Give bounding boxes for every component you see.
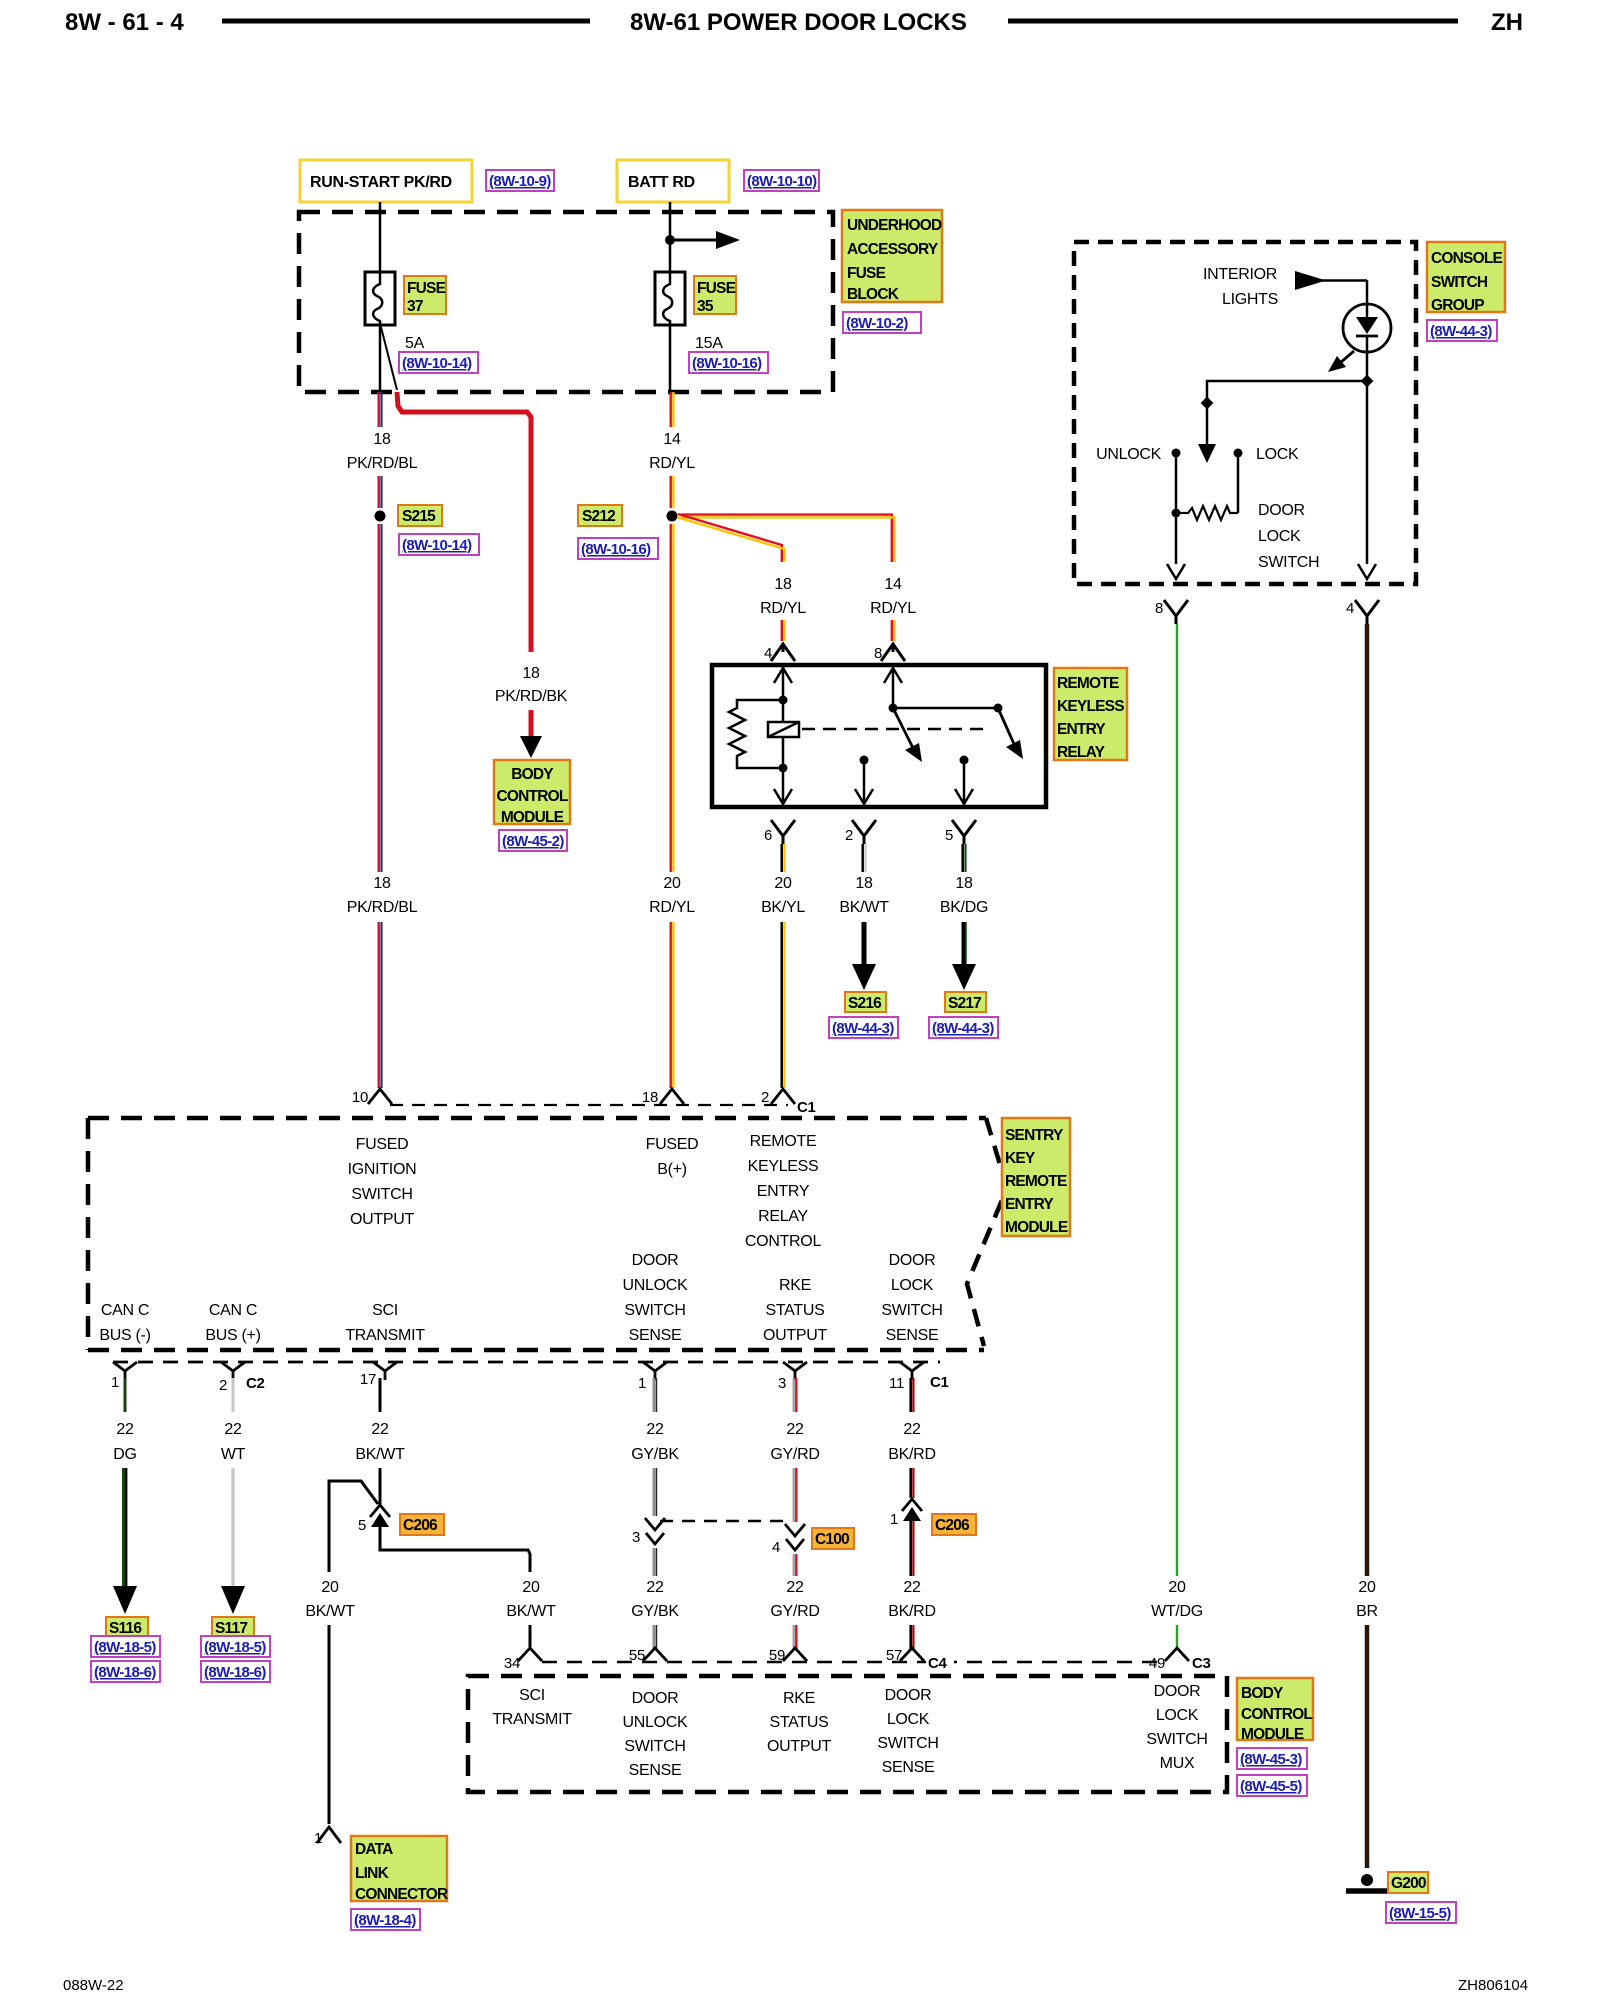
label CAN C BUS (-) [99, 1302, 150, 1344]
svg-text:(8W-45-5): (8W-45-5) [1240, 1778, 1302, 1795]
lamp with diode symbol [1343, 304, 1391, 352]
svg-text:DOOR: DOOR [632, 1252, 679, 1269]
svg-text:KEYLESS: KEYLESS [1057, 698, 1124, 715]
SKREEM module dashed box [88, 1118, 1007, 1350]
svg-text:ENTRY: ENTRY [1057, 721, 1106, 738]
svg-text:LOCK: LOCK [891, 1277, 934, 1294]
wire PK/RD/BL segment to splice [379, 476, 382, 508]
svg-text:LOCK: LOCK [887, 1711, 930, 1728]
wire arrow to splice S217 [952, 922, 976, 990]
svg-text:37: 37 [407, 298, 423, 315]
svg-text:CONTROL: CONTROL [745, 1233, 822, 1250]
svg-text:C1: C1 [930, 1374, 949, 1391]
svg-text:22: 22 [371, 1421, 389, 1438]
connector dashed link C100 [660, 1520, 790, 1523]
svg-text:C1: C1 [797, 1099, 816, 1116]
relay contact wire pin 2 internal [855, 756, 873, 805]
svg-text:1: 1 [890, 1511, 898, 1528]
label link 8W-44-3 at S217 [929, 1017, 998, 1038]
svg-text:ENTRY: ENTRY [1005, 1196, 1054, 1213]
svg-text:SENSE: SENSE [629, 1327, 682, 1344]
svg-text:18: 18 [373, 431, 391, 448]
label wire 14 RD/YL at relay pin 8 [870, 576, 916, 617]
svg-text:FUSE: FUSE [847, 265, 886, 282]
svg-text:(8W-10-2): (8W-10-2) [846, 315, 908, 332]
svg-text:GROUP: GROUP [1431, 297, 1484, 314]
pin 49 connector Y at BCM [1149, 1648, 1189, 1672]
label wire 20 BK/YL [761, 875, 805, 916]
label S215 [398, 505, 442, 526]
pin 2 connector Y below relay [845, 820, 876, 844]
svg-text:DOOR: DOOR [632, 1690, 679, 1707]
svg-text:UNDERHOOD: UNDERHOOD [847, 217, 942, 234]
svg-text:SWITCH: SWITCH [881, 1302, 942, 1319]
svg-text:RELAY: RELAY [1057, 744, 1106, 761]
svg-text:(8W-18-5): (8W-18-5) [204, 1639, 266, 1656]
svg-text:1: 1 [111, 1374, 119, 1391]
pin 2 connector Y below SKREEM (CAN C+) [219, 1362, 245, 1394]
wire lamp down to pin 4 [1366, 352, 1369, 564]
label G200 [1388, 1872, 1428, 1893]
pin 4 connector Y at relay [764, 644, 795, 662]
svg-text:2: 2 [845, 827, 853, 844]
svg-text:20: 20 [522, 1579, 540, 1596]
label S216 [845, 992, 886, 1012]
label wire 22 GY/BK [631, 1421, 679, 1463]
wire BK/WT segment to C206 [379, 1468, 382, 1505]
svg-text:DATA: DATA [355, 1841, 393, 1858]
relay coil symbol [768, 722, 799, 737]
pin 11 connector Y below SKREEM (lock sense) [889, 1362, 924, 1392]
label wire 20 BR [1356, 1579, 1378, 1620]
svg-text:SENSE: SENSE [886, 1327, 939, 1344]
svg-text:SWITCH: SWITCH [1146, 1731, 1207, 1748]
wire RD/YL segment below fuse block [671, 392, 674, 427]
relay common wire pin8 internal [884, 665, 998, 708]
svg-text:18: 18 [522, 665, 540, 682]
label wire 22 GY/BK at BCM [631, 1579, 679, 1620]
pin 1 connector Y at data link connector [314, 1827, 341, 1847]
svg-text:CAN C: CAN C [101, 1302, 149, 1319]
label link 8W-10-10 [744, 170, 819, 191]
svg-text:SENSE: SENSE [882, 1759, 935, 1776]
svg-text:S216: S216 [848, 995, 882, 1012]
in-line connector C206 pin 5 [358, 1505, 390, 1534]
wire BK/RD below C206 to BCM pin 57 [911, 1521, 914, 1576]
svg-text:LIGHTS: LIGHTS [1222, 291, 1278, 308]
svg-text:BK/WT: BK/WT [506, 1603, 556, 1620]
label S212 [578, 505, 622, 526]
svg-text:(8W-18-5): (8W-18-5) [94, 1639, 156, 1656]
svg-text:DOOR: DOOR [889, 1252, 936, 1269]
svg-text:2: 2 [219, 1377, 227, 1394]
relay contact wire pin 5 internal [955, 756, 973, 805]
svg-text:MODULE: MODULE [1241, 1726, 1304, 1743]
label wire 18 PK/RD/BK [495, 665, 568, 705]
PAGE_HEADER [65, 9, 1523, 36]
svg-text:22: 22 [646, 1421, 664, 1438]
wire to lamp [1366, 280, 1369, 306]
svg-text:CONNECTOR: CONNECTOR [355, 1886, 448, 1903]
pin 17 connector Y below SKREEM (SCI) [360, 1362, 397, 1388]
svg-text:RUN-START PK/RD: RUN-START PK/RD [310, 174, 452, 191]
svg-text:FUSE: FUSE [697, 280, 736, 297]
label wire 22 GY/RD at BCM [770, 1579, 819, 1620]
svg-text:(8W-10-10): (8W-10-10) [747, 173, 817, 190]
label wire 20 WT/DG [1151, 1579, 1203, 1620]
splice S215 junction dot [375, 511, 386, 522]
svg-text:GY/BK: GY/BK [631, 1603, 679, 1620]
label FUSED B(+) [646, 1136, 699, 1178]
svg-text:22: 22 [786, 1579, 804, 1596]
svg-text:SCI: SCI [372, 1302, 398, 1319]
junction resistor to unlock wire [1172, 509, 1181, 518]
wire BK/YL from relay pin 6 [782, 844, 785, 872]
label link 8W-10-16 [689, 352, 768, 373]
label S217 [945, 992, 986, 1012]
svg-text:REMOTE: REMOTE [750, 1133, 817, 1150]
svg-text:BLOCK: BLOCK [847, 286, 900, 303]
svg-text:LOCK: LOCK [1156, 1707, 1199, 1724]
junction diamond at lamp wire [1361, 375, 1374, 388]
wire BK/WT segment to DLC [328, 1625, 331, 1824]
wire BK/WT below C206 to BCM pin 34 [380, 1527, 530, 1572]
svg-text:SCI: SCI [519, 1687, 545, 1704]
wire GY/BK below C100 to BCM pin 55 [654, 1548, 657, 1576]
label FUSED IGNITION SWITCH OUTPUT [348, 1136, 417, 1228]
wire RD/YL main segment down from S212 [671, 524, 674, 872]
svg-text:SENTRY: SENTRY [1005, 1127, 1064, 1144]
wire from RUN-START feed to fuse 37 [379, 202, 382, 272]
lock contact [1234, 449, 1243, 458]
svg-text:22: 22 [786, 1421, 804, 1438]
svg-text:REMOTE: REMOTE [1005, 1173, 1067, 1190]
label DATA LINK CONNECTOR [351, 1836, 448, 1903]
wire lock contact down [1237, 453, 1240, 513]
label link 8W-10-14 at S215 [399, 534, 479, 555]
switch wiper arrow [1198, 404, 1216, 463]
label SCI TRANSMIT at BCM [492, 1687, 572, 1728]
BCM dashed box [468, 1676, 1227, 1792]
svg-text:18: 18 [855, 875, 873, 892]
label DOOR UNLOCK SWITCH SENSE at BCM [623, 1690, 689, 1779]
junction switch arm 2 [994, 704, 1003, 713]
svg-text:20: 20 [1358, 1579, 1376, 1596]
pin 1 connector Y below SKREEM (CAN C-) [111, 1362, 137, 1391]
svg-text:UNLOCK: UNLOCK [1096, 446, 1162, 463]
svg-text:20: 20 [663, 875, 681, 892]
svg-text:WT/DG: WT/DG [1151, 1603, 1203, 1620]
label SCI TRANSMIT [345, 1302, 425, 1344]
svg-text:FUSED: FUSED [646, 1136, 699, 1153]
label link 8W-18-5 at S116 [91, 1636, 160, 1657]
wire GY/RD segment to C100 [794, 1468, 797, 1522]
svg-text:6: 6 [764, 827, 772, 844]
svg-text:17: 17 [360, 1371, 376, 1388]
wire fuse 35 to block edge [669, 325, 672, 392]
svg-text:CONTROL: CONTROL [496, 788, 567, 805]
connector line C1 top of SKREEM [390, 1104, 788, 1106]
svg-text:8W - 61 - 4: 8W - 61 - 4 [65, 9, 184, 36]
svg-text:22: 22 [224, 1421, 242, 1438]
connector line C2/C1 bottom of SKREEM [113, 1361, 940, 1364]
svg-text:BODY: BODY [511, 766, 554, 783]
svg-text:DG: DG [113, 1446, 136, 1463]
unlock contact [1172, 449, 1181, 458]
svg-text:BR: BR [1356, 1603, 1378, 1620]
svg-text:(8W-10-14): (8W-10-14) [402, 537, 472, 554]
svg-text:BK/WT: BK/WT [839, 899, 889, 916]
label BODY CONTROL MODULE (lower) [1237, 1678, 1313, 1743]
svg-text:GY/RD: GY/RD [770, 1446, 819, 1463]
node RUN-START PK/RD feed box [300, 160, 472, 202]
wire feed arrow right [670, 231, 740, 249]
svg-text:OUTPUT: OUTPUT [767, 1738, 832, 1755]
wire BK/DG from relay pin 5 [963, 844, 966, 872]
wire PK/RD/BK segment to BCM [529, 710, 534, 738]
wire BK/YL segment to SKREEM [782, 922, 785, 1088]
label wire 22 BK/RD at BCM [888, 1579, 935, 1620]
wire branch to data link connector [329, 1481, 378, 1572]
svg-text:ACCESSORY: ACCESSORY [847, 241, 939, 258]
svg-text:(8W-15-5): (8W-15-5) [1389, 1905, 1451, 1922]
wire BK/WT from relay pin 2 [863, 844, 866, 872]
svg-text:BATT RD: BATT RD [628, 174, 695, 191]
wire GY/RD segment into BCM [794, 1625, 797, 1650]
wire arrow to splice S216 [852, 922, 876, 990]
pin 18 connector Y at SKREEM [642, 1089, 684, 1106]
label link 8W-10-9 [486, 170, 554, 191]
wire switch feed horizontal [1207, 381, 1367, 404]
svg-text:5: 5 [945, 827, 953, 844]
svg-text:RD/YL: RD/YL [760, 600, 806, 617]
svg-text:ENTRY: ENTRY [757, 1183, 810, 1200]
label C206 upper [400, 1514, 444, 1535]
svg-text:MUX: MUX [1160, 1755, 1195, 1772]
pin 4 connector Y below console [1346, 600, 1379, 624]
label C206 lower [932, 1514, 976, 1535]
svg-text:34: 34 [504, 1655, 520, 1672]
svg-text:SWITCH: SWITCH [1431, 274, 1488, 291]
wire BK/RD segment to C206 [911, 1468, 914, 1498]
svg-text:FUSED: FUSED [356, 1136, 409, 1153]
splice S212 junction dot [667, 511, 678, 522]
junction at BATT feed [665, 235, 675, 245]
label C4 [926, 1650, 954, 1672]
wire RD/YL segment into relay pin 8 [892, 620, 895, 641]
pin 34 connector Y at BCM [504, 1648, 542, 1672]
svg-text:LINK: LINK [355, 1865, 390, 1882]
wire fuse 37 to block edge [379, 325, 382, 392]
arrow into body control module [520, 736, 542, 758]
svg-text:(8W-44-3): (8W-44-3) [932, 1020, 994, 1037]
wire RD/YL branch diagonal to relay pin 4 [677, 514, 784, 562]
pin 3 connector Y below SKREEM (RKE status) [778, 1362, 807, 1392]
connector line C4/C3 top of BCM [542, 1661, 1160, 1664]
in-line connector C206 pin 1 [890, 1499, 922, 1528]
in-line connector pin 3 [632, 1518, 665, 1546]
svg-text:(8W-18-6): (8W-18-6) [204, 1664, 266, 1681]
svg-text:C4: C4 [928, 1655, 948, 1672]
svg-text:BK/WT: BK/WT [355, 1446, 405, 1463]
wire WT/DG segment to BCM pin 49 [1176, 1625, 1178, 1650]
svg-text:22: 22 [903, 1579, 921, 1596]
svg-text:14: 14 [663, 431, 681, 448]
svg-text:S215: S215 [402, 508, 436, 525]
pin 1 connector Y below SKREEM (unlock sense) [638, 1362, 667, 1392]
wire unlock contact down [1175, 453, 1178, 564]
label wire 22 WT [221, 1421, 246, 1463]
wire PK/RD/BL segment to SKREEM [379, 922, 382, 1088]
wire GY/BK segment to C100 [654, 1468, 657, 1516]
pin 59 connector Y at BCM [769, 1647, 807, 1664]
svg-text:59: 59 [769, 1647, 785, 1664]
junction diamond at switch feed [1201, 397, 1214, 410]
label UNDERHOOD ACCESSORY FUSE BLOCK [842, 210, 942, 303]
label CONSOLE SWITCH GROUP [1427, 242, 1505, 314]
svg-text:KEYLESS: KEYLESS [748, 1158, 819, 1175]
svg-text:49: 49 [1149, 1655, 1165, 1672]
label link 8W-45-5 at BCM [1237, 1775, 1307, 1796]
label RKE STATUS OUTPUT at BCM [767, 1690, 832, 1755]
svg-text:11: 11 [889, 1375, 904, 1392]
arrow lamp wire at box edge [1358, 564, 1376, 579]
svg-text:BODY: BODY [1241, 1685, 1284, 1702]
svg-text:SWITCH: SWITCH [877, 1735, 938, 1752]
svg-text:(8W-10-16): (8W-10-16) [692, 355, 762, 372]
svg-text:CONSOLE: CONSOLE [1431, 250, 1503, 267]
svg-text:20: 20 [774, 875, 792, 892]
wire WT arrow to splice S117 [221, 1468, 245, 1614]
svg-text:(8W-44-3): (8W-44-3) [1430, 323, 1492, 340]
svg-text:CONTROL: CONTROL [1241, 1706, 1312, 1723]
svg-text:SENSE: SENSE [629, 1762, 682, 1779]
svg-text:(8W-10-14): (8W-10-14) [402, 355, 472, 372]
svg-text:(8W-45-2): (8W-45-2) [502, 833, 564, 850]
svg-text:BK/DG: BK/DG [940, 899, 988, 916]
svg-text:(8W-18-6): (8W-18-6) [94, 1664, 156, 1681]
label wire 22 DG [113, 1421, 136, 1463]
svg-text:8: 8 [1155, 600, 1163, 617]
label RKE STATUS OUTPUT [763, 1277, 828, 1344]
svg-text:(8W-18-4): (8W-18-4) [354, 1912, 416, 1929]
svg-text:G200: G200 [1391, 1875, 1426, 1892]
wire fuse 37 diagonal tap [381, 327, 397, 390]
svg-text:C206: C206 [403, 1517, 438, 1534]
svg-text:088W-22: 088W-22 [63, 1977, 124, 1994]
pin 8 connector Y at relay [874, 644, 905, 662]
junction coil top [779, 696, 788, 705]
svg-text:FUSE: FUSE [407, 280, 446, 297]
wire RD/YL segment to splice [671, 476, 674, 508]
svg-text:RKE: RKE [779, 1277, 811, 1294]
wire BK/WT from SKREEM pin 17 [379, 1378, 382, 1412]
svg-text:RD/YL: RD/YL [870, 600, 916, 617]
svg-text:ZH: ZH [1491, 9, 1523, 36]
svg-text:1: 1 [638, 1375, 646, 1392]
fuse F35 [655, 272, 685, 325]
pin 57 connector Y at BCM [886, 1647, 924, 1664]
svg-text:RELAY: RELAY [758, 1208, 808, 1225]
svg-text:GY/RD: GY/RD [770, 1603, 819, 1620]
label link 8W-18-5 at S117 [201, 1636, 270, 1657]
wire PK/RD/BL long segment [379, 524, 382, 872]
svg-text:SWITCH: SWITCH [624, 1302, 685, 1319]
label DOOR UNLOCK SWITCH SENSE [623, 1252, 689, 1344]
label link 8W-10-16 at S212 [578, 538, 658, 559]
svg-text:18: 18 [955, 875, 973, 892]
svg-text:4: 4 [772, 1539, 780, 1556]
svg-text:MODULE: MODULE [501, 809, 564, 826]
svg-text:IGNITION: IGNITION [348, 1161, 417, 1178]
svg-text:UNLOCK: UNLOCK [623, 1714, 689, 1731]
svg-text:3: 3 [778, 1375, 786, 1392]
junction coil bottom [779, 764, 788, 773]
svg-text:C2: C2 [246, 1375, 265, 1392]
svg-text:STATUS: STATUS [770, 1714, 829, 1731]
label C3 [1191, 1650, 1217, 1672]
label link 8W-45-2 [499, 830, 567, 851]
svg-text:5: 5 [358, 1517, 366, 1534]
svg-text:DOOR: DOOR [1154, 1683, 1201, 1700]
svg-text:B(+): B(+) [657, 1161, 686, 1178]
label wire 22 BK/RD [888, 1421, 935, 1463]
label link 8W-10-2 [843, 312, 921, 333]
label wire 18 PK/RD/BL [347, 431, 418, 472]
svg-text:18: 18 [373, 875, 391, 892]
pin 5 connector Y below relay [945, 820, 976, 844]
svg-text:4: 4 [1346, 600, 1354, 617]
wire PK/RD/BK thick feed from fuse 37 [397, 392, 531, 652]
svg-text:S217: S217 [948, 995, 981, 1012]
label link 8W-18-4 [351, 1909, 420, 1930]
resistor in relay [729, 700, 783, 768]
wire WT/DG long run [1176, 624, 1178, 1576]
console switch group dashed box [1074, 242, 1416, 584]
wire BR long run [1365, 624, 1370, 1576]
svg-text:GY/BK: GY/BK [631, 1446, 679, 1463]
label DOOR LOCK SWITCH MUX at BCM [1146, 1683, 1207, 1772]
pin 55 connector Y at BCM [629, 1647, 667, 1664]
label wire 18 BK/DG [940, 875, 988, 916]
svg-text:57: 57 [886, 1647, 902, 1664]
svg-text:C100: C100 [815, 1531, 849, 1548]
svg-text:S212: S212 [582, 508, 615, 525]
svg-text:18: 18 [642, 1089, 658, 1106]
svg-text:5A: 5A [405, 335, 425, 352]
svg-text:S116: S116 [109, 1620, 142, 1637]
svg-text:15A: 15A [695, 335, 723, 352]
svg-text:2: 2 [761, 1089, 769, 1106]
svg-text:20: 20 [1168, 1579, 1186, 1596]
svg-text:55: 55 [629, 1647, 645, 1664]
svg-text:BUS (+): BUS (+) [205, 1327, 260, 1344]
label link 8W-45-3 at BCM [1237, 1748, 1307, 1769]
svg-text:14: 14 [884, 576, 902, 593]
svg-text:BUS (-): BUS (-) [99, 1327, 150, 1344]
label wire 14 RD/YL [649, 431, 695, 472]
wire DG arrow to splice S116 [113, 1468, 137, 1614]
svg-text:(8W-10-9): (8W-10-9) [489, 173, 551, 190]
label REMOTE KEYLESS ENTRY RELAY [1054, 668, 1127, 761]
pin 8 connector Y below console [1155, 600, 1188, 624]
svg-text:KEY: KEY [1005, 1150, 1036, 1167]
label link 8W-15-5 [1386, 1902, 1456, 1923]
wire BR segment to ground [1365, 1625, 1370, 1868]
label wire 18 RD/YL at relay pin 4 [760, 576, 806, 617]
svg-text:OUTPUT: OUTPUT [763, 1327, 828, 1344]
svg-text:LOCK: LOCK [1256, 446, 1299, 463]
